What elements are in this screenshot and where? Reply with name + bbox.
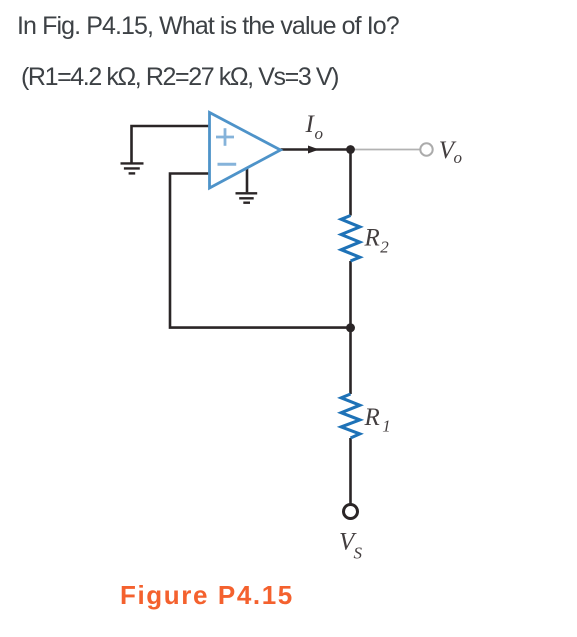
svg-text:R: R — [364, 224, 380, 251]
svg-text:S: S — [354, 543, 363, 562]
svg-text:1: 1 — [382, 417, 391, 436]
svg-text:o: o — [454, 148, 463, 167]
svg-text:o: o — [315, 124, 324, 143]
svg-text:2: 2 — [380, 237, 389, 256]
svg-text:R: R — [364, 404, 380, 431]
